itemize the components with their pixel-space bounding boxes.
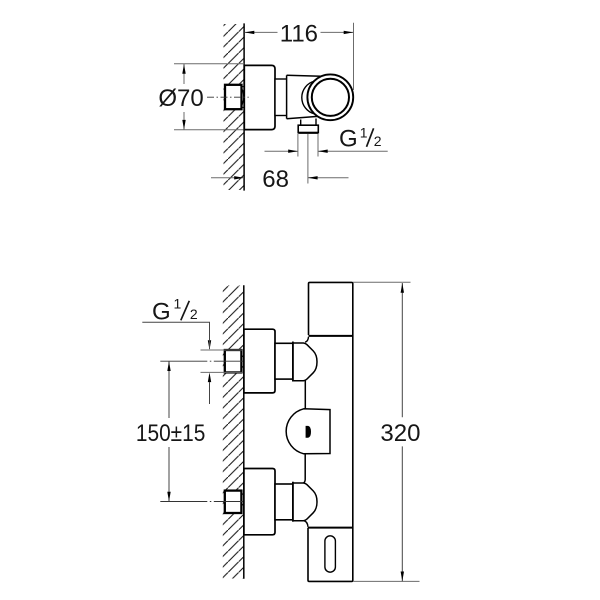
wall hatching (lower view) (223, 286, 244, 579)
body separator top (309, 335, 353, 337)
dimension 150 +/- 15 (168, 361, 170, 418)
fillet below top separator (305, 337, 308, 342)
knob outer circle (top view) (307, 74, 353, 120)
dimension line d70 (183, 64, 185, 84)
svg-text:Ø70: Ø70 (158, 85, 203, 112)
fillet above bottom separator (304, 521, 308, 527)
extension lines diameter 70 (174, 63, 244, 65)
dimension 68 (211, 177, 244, 179)
svg-text:G: G (152, 298, 171, 325)
top union: escutcheon (244, 329, 275, 393)
top union centre line (160, 360, 243, 362)
dimension 320 (353, 281, 411, 283)
bottom union: middle piece (275, 484, 293, 520)
svg-text:68: 68 (262, 166, 289, 193)
outlet neck (top view) (300, 120, 302, 126)
knob D mark (306, 426, 311, 438)
body left edge between top dome and knob (304, 380, 306, 409)
svg-text:320: 320 (380, 420, 420, 447)
escutcheon (top view) (244, 65, 275, 129)
bottom union: escutcheon (244, 469, 275, 535)
knob (lower view) (286, 409, 330, 454)
knob back-edge arc (top view) (302, 81, 315, 114)
outlet collar (top view) (298, 125, 318, 133)
svg-text:G: G (339, 126, 358, 153)
bottom union centre line (160, 501, 243, 503)
svg-text:116: 116 (280, 20, 318, 47)
top union: middle piece (275, 343, 293, 379)
svg-text:1: 1 (174, 295, 182, 311)
wall line (lower view) (243, 285, 245, 578)
wall hatching (top view) (224, 24, 244, 190)
nut extension lines (lower view) (201, 349, 244, 351)
wall line (top view) (243, 23, 245, 190)
dimension line 116 (245, 31, 278, 33)
extension line 116 right (353, 23, 355, 90)
svg-text:2: 2 (374, 133, 382, 149)
bottom union: dome (293, 483, 317, 521)
svg-text:2: 2 (190, 306, 198, 322)
connector piece (top view) (275, 79, 287, 116)
dimension G1/2 (top view) (265, 150, 298, 152)
svg-text:1: 1 (360, 125, 368, 141)
oval slot (lower view) (325, 536, 336, 572)
arrow 116 right (344, 31, 354, 34)
arrow d70 top (182, 64, 185, 74)
body left edge between knob and bottom dome (303, 454, 305, 484)
body separator bottom (308, 527, 353, 529)
top union: dome (293, 343, 317, 381)
main body fill (lower view) (308, 282, 353, 581)
extension line 68 centre (307, 134, 309, 184)
wall nut (top view) (225, 85, 242, 109)
arrow 116 left (245, 31, 255, 34)
valve body (top view) (287, 75, 330, 118)
extension lines G1/2 (top view) (297, 134, 299, 157)
knob inner circle (top view) (312, 79, 349, 116)
bottom union: nut (225, 491, 242, 513)
main body outline (lower view) (308, 282, 353, 581)
svg-text:150±15: 150±15 (136, 420, 206, 447)
arrow d70 bottom (182, 120, 185, 130)
top union: nut (225, 350, 242, 372)
centre line (top view nut) (207, 96, 249, 98)
